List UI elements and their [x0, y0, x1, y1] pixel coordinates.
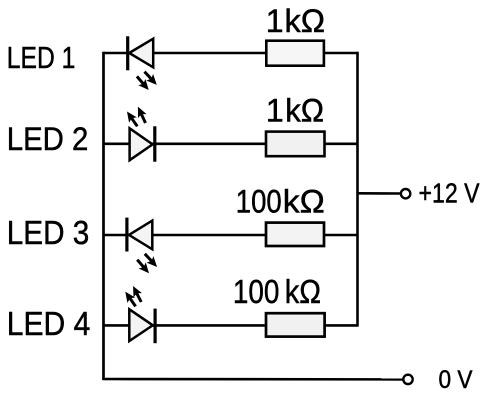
svg-text:kΩ: kΩ	[285, 273, 321, 310]
LED D2 light arrows	[123, 105, 150, 129]
svg-text:100: 100	[236, 183, 282, 219]
LED D3 light arrows	[134, 251, 161, 277]
svg-text:0 V: 0 V	[439, 366, 473, 394]
svg-text:LED 4: LED 4	[7, 305, 91, 342]
svg-text:LED 1: LED 1	[7, 40, 76, 75]
svg-text:LED 2: LED 2	[7, 121, 89, 157]
wire +12V tap	[358, 192, 401, 195]
terminal +12V	[401, 189, 410, 198]
wire row 2	[104, 143, 358, 146]
wire 0V bottom	[102, 378, 403, 381]
resistor R3	[266, 223, 324, 246]
wire right rail	[356, 52, 359, 327]
LED D4 light arrows	[121, 284, 145, 309]
svg-text:kΩ: kΩ	[283, 183, 325, 219]
svg-text:LED 3: LED 3	[7, 214, 90, 251]
LED D3	[127, 218, 152, 252]
svg-text:1: 1	[266, 3, 284, 39]
resistor R1	[266, 41, 324, 66]
svg-text:100: 100	[233, 273, 280, 310]
wire row 4	[104, 324, 358, 327]
wire left rail	[102, 52, 105, 379]
resistor R4	[266, 313, 325, 336]
terminal 0V	[403, 375, 412, 384]
resistor R2	[266, 132, 325, 157]
svg-text:+12 V: +12 V	[419, 178, 480, 209]
svg-text:kΩ: kΩ	[285, 3, 326, 39]
LED D2	[130, 126, 155, 161]
LED D1	[128, 36, 154, 70]
svg-text:kΩ: kΩ	[285, 93, 324, 129]
wire row 3	[104, 234, 358, 237]
svg-text:1: 1	[266, 93, 284, 129]
LED D4	[129, 309, 155, 344]
LED D1 light arrows	[133, 68, 160, 93]
wire row 1	[104, 52, 358, 55]
